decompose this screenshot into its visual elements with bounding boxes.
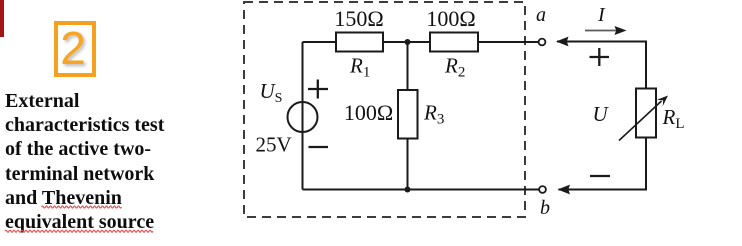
svg-text:100Ω: 100Ω <box>344 100 393 125</box>
svg-text:R1: R1 <box>349 54 370 81</box>
svg-text:R2: R2 <box>444 54 465 81</box>
svg-text:150Ω: 150Ω <box>334 6 383 31</box>
svg-text:a: a <box>536 4 546 26</box>
svg-text:US: US <box>260 79 283 106</box>
svg-text:RL: RL <box>662 105 685 132</box>
svg-text:b: b <box>540 197 550 219</box>
svg-text:I: I <box>597 4 606 26</box>
svg-text:R3: R3 <box>423 101 444 128</box>
svg-text:100Ω: 100Ω <box>426 6 475 31</box>
svg-text:25V: 25V <box>256 133 292 157</box>
svg-text:U: U <box>593 102 610 126</box>
